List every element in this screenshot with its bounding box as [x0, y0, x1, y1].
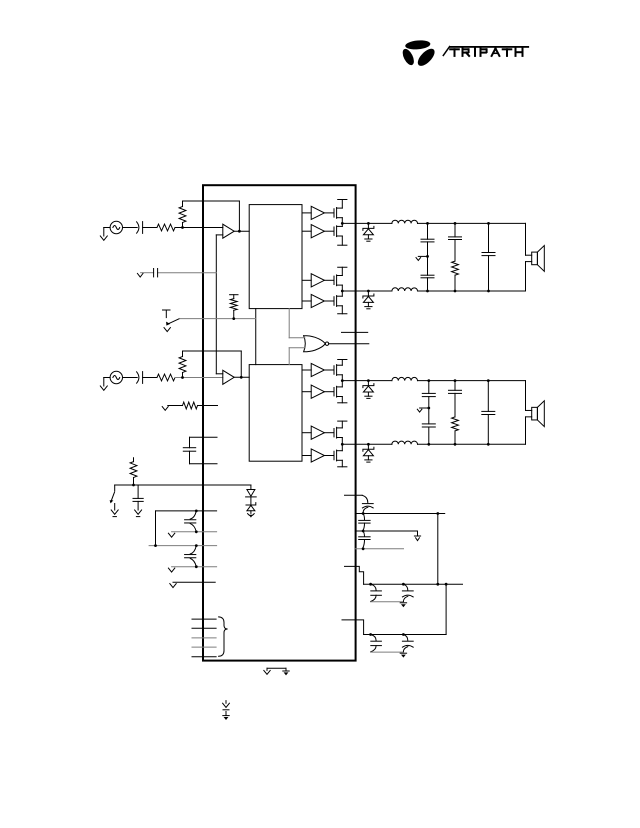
AC source V2 (ch2 input)	[110, 371, 122, 383]
node cap bottom 1	[487, 290, 490, 293]
wire pin stub VREF	[156, 510, 217, 512]
wire NOR output pin	[329, 343, 369, 345]
output inductor L2b	[392, 441, 418, 444]
capacitor C14 (polarized)	[403, 635, 407, 641]
wire output rail bottom 2	[418, 443, 526, 445]
MOSFET lower (ch1 high-side)	[324, 230, 334, 232]
wire C13 ground line	[371, 651, 404, 653]
coupling capacitor C3 (ch2)	[137, 372, 139, 383]
ground at C12	[400, 602, 406, 604]
ground at D2	[248, 514, 255, 516]
op-amp U1B (ch2 input stage)	[223, 370, 234, 384]
ground symbol pair lower (open)	[225, 701, 227, 704]
node branch1 top 1	[426, 222, 429, 225]
wire internal bus (inverting input rail)	[215, 235, 217, 374]
wire pin stub AGND3	[173, 581, 215, 583]
wire R4 to op-amp	[175, 377, 223, 379]
wire supply rail B	[364, 634, 447, 636]
capacitor C11	[371, 584, 377, 590]
AC source V1 (ch1 input)	[110, 221, 122, 233]
gate driver buffer (ch1 low-side lower)	[302, 300, 311, 302]
pull-up resistor R3 (mute)	[230, 294, 238, 296]
capacitor C8	[362, 495, 368, 502]
Tripath logo wordmark TRIPATH with overbar	[443, 46, 529, 56]
node ch1 input junction	[181, 226, 184, 229]
wire ch1 feedback	[183, 200, 240, 202]
capacitor C10	[363, 531, 364, 536]
zener diode clamp (ch1 high-side)	[367, 223, 369, 228]
wire R1 to op-amp	[175, 227, 223, 229]
ground at AGND4	[417, 531, 419, 536]
node zobel bottom 2	[454, 443, 457, 446]
node switching output (ch2 high-side)	[341, 379, 344, 382]
bias resistor R7	[133, 458, 135, 462]
wire oscillator pin 3	[192, 637, 216, 639]
op-amp/power IC U1 package outline	[203, 185, 356, 660]
wire output rail top 1	[418, 222, 526, 224]
zener diode clamp (ch2 low-side)	[367, 444, 369, 449]
node cap top 1	[487, 222, 490, 225]
ground at V2	[100, 386, 107, 390]
Zobel capacitor 1	[454, 223, 456, 237]
wire rail A down link	[445, 584, 447, 634]
node cap bottom 2	[487, 443, 490, 446]
MOSFET lower (ch2 high-side)	[324, 391, 334, 393]
node mute junction	[232, 317, 235, 320]
output inductor L2a	[392, 377, 418, 380]
wire midpoint stub 1	[418, 255, 427, 257]
gate driver buffer (ch1 high-side upper)	[302, 212, 311, 214]
wire ch2 feedback	[183, 350, 242, 352]
wire output rail bottom 1	[418, 290, 526, 292]
ground symbol (open)	[264, 670, 270, 674]
capacitor pair branch 1 upper	[427, 223, 429, 239]
node ch2 input junction	[181, 376, 184, 379]
wire pin stair B	[342, 620, 364, 635]
gate driver buffer (ch1 low-side upper)	[302, 279, 311, 281]
bias resistor R6 (ch2) with ground	[162, 407, 168, 411]
return rail bar (ch2 high-side)	[338, 402, 347, 404]
ground at C2	[137, 273, 143, 277]
wire pin stub AGND4	[355, 530, 417, 532]
return rail bar (ch2 low-side)	[338, 466, 347, 468]
gate driver buffer (ch2 low-side upper)	[302, 432, 311, 434]
feedback resistor R5 (ch2)	[182, 351, 184, 357]
wire oscillator pin 4	[192, 646, 216, 648]
node branch1 bottom 2	[427, 443, 430, 446]
capacitor pair branch 2 upper	[428, 381, 430, 394]
Zobel resistor 1	[452, 261, 459, 275]
op-amp U1A (ch1 input stage)	[223, 224, 234, 238]
wire oscillator pin 1	[192, 618, 216, 620]
diode D1	[250, 485, 252, 490]
capacitor C13	[371, 635, 377, 641]
wire pin stub AGND1	[172, 531, 217, 533]
node cap top 2	[487, 379, 490, 382]
gate driver buffer (ch2 high-side upper)	[302, 369, 311, 371]
wire switching output (ch2 low-side)	[342, 443, 392, 445]
MOSFET lower (ch1 low-side)	[324, 300, 334, 302]
node zobel top 2	[454, 379, 457, 382]
Zobel capacitor 2	[454, 381, 456, 391]
wire output rail top 2	[418, 380, 526, 382]
wire pin stub OAOUT	[345, 494, 363, 496]
ground at AGND2	[168, 568, 174, 572]
node midpoint 1	[426, 255, 429, 258]
capacitor C4 loop (ch2)	[190, 436, 218, 438]
gate driver buffer (ch2 low-side lower)	[302, 455, 311, 457]
wire V1 left lead	[104, 227, 110, 229]
wire switching output (ch1 high-side)	[342, 222, 392, 224]
NOR gate U1C	[304, 336, 326, 352]
MOSFET upper (ch1 high-side)	[324, 212, 334, 214]
ground at C5	[135, 510, 142, 514]
ground at C14	[400, 652, 406, 654]
capacitor pair branch 1 lower	[421, 274, 434, 276]
return rail bar (ch1 high-side)	[338, 244, 347, 246]
wire pin stub AGND2	[172, 566, 217, 568]
wire oscillator pin 2	[192, 627, 216, 629]
internal processing block 2 (ch2)	[249, 365, 302, 462]
wire pin stub HMUTE	[342, 331, 368, 333]
capacitor pair branch 2 lower	[422, 423, 435, 425]
wire V2 to C3	[123, 377, 138, 379]
brace grouping oscillator pins	[219, 617, 228, 656]
MOSFET lower (ch2 low-side)	[324, 455, 334, 457]
block1-to-block2 connector wire	[255, 309, 257, 365]
ground at AGND1	[168, 533, 174, 537]
input resistor R4 (ch2)	[157, 374, 175, 381]
capacitor C7	[190, 546, 196, 554]
speaker SPK2	[525, 381, 527, 411]
supply rail bar (ch2 high-side)	[338, 359, 347, 361]
wire VREF-VCC link	[155, 511, 157, 546]
node branch1 top 2	[427, 379, 430, 382]
node zobel top 1	[454, 222, 457, 225]
node switching output (ch1 low-side)	[341, 290, 344, 293]
wire V2 left lead	[104, 377, 110, 379]
wire V5A down link	[437, 514, 439, 584]
zener diode D2	[246, 503, 256, 505]
wire supply rail A	[364, 583, 463, 585]
feedback resistor R2 (ch1)	[182, 201, 184, 207]
Tripath logo icon	[400, 39, 437, 68]
ground at S1	[164, 328, 170, 332]
wire C11 ground line	[371, 601, 404, 603]
MOSFET upper (ch2 low-side)	[324, 432, 334, 434]
ground at midpoint 1	[416, 258, 421, 261]
switch S2 (sleep)	[114, 485, 116, 491]
zener diode clamp (ch1 low-side)	[367, 291, 369, 296]
node midpoint 2	[427, 407, 430, 410]
wire switching output (ch2 high-side)	[342, 380, 392, 382]
ground symbol (solid)	[283, 670, 289, 672]
wire U1B upper input	[216, 373, 223, 375]
capacitor C6	[190, 511, 196, 519]
input resistor R1 (ch1)	[157, 224, 175, 231]
wire pin stub V5A	[355, 513, 444, 515]
node switching output (ch1 high-side)	[341, 222, 344, 225]
wire switching output (ch1 low-side)	[342, 290, 392, 292]
node branch1 bottom 1	[426, 290, 429, 293]
capacitor C5 (bias)	[137, 485, 139, 498]
ground at AGND3	[170, 584, 176, 588]
wire midpoint stub 2	[420, 407, 429, 409]
node switching output (ch2 low-side)	[341, 443, 344, 446]
wire bias line	[115, 484, 251, 486]
wire C3 to R4	[143, 377, 157, 379]
mute switch S1	[163, 309, 171, 311]
supply rail bar (ch1 high-side)	[338, 199, 347, 201]
Zobel resistor 2	[452, 417, 459, 431]
wire ground link	[267, 667, 286, 669]
capacitor C12 (polarized)	[403, 584, 407, 590]
return rail bar (ch1 low-side)	[338, 313, 347, 315]
wire pin stub REF	[355, 548, 403, 550]
wire NOR bottom input	[289, 347, 305, 349]
coupling capacitor C1 (ch1)	[137, 222, 139, 233]
wire ch1 feedback cap line	[141, 272, 154, 274]
node zobel bottom 1	[454, 290, 457, 293]
gate driver buffer (ch2 high-side lower)	[302, 391, 311, 393]
wire NOR top input	[288, 309, 290, 338]
wire pin stub VCC	[149, 545, 217, 547]
gate driver buffer (ch1 high-side lower)	[302, 230, 311, 232]
wire oscillator pin 5	[192, 656, 216, 658]
wire U1A inverting input	[216, 234, 223, 236]
ground at S2	[114, 504, 116, 511]
wire pin stair A	[345, 566, 364, 584]
capacitor C2 (ch1 feedback)	[153, 269, 155, 277]
ground at midpoint 2	[417, 409, 422, 412]
filter capacitor 2	[487, 381, 489, 412]
ground at V1	[100, 236, 107, 240]
MOSFET upper (ch2 high-side)	[324, 369, 334, 371]
capacitor C9	[363, 514, 364, 520]
ground symbol pair lower (solid)	[225, 712, 227, 716]
MOSFET upper (ch1 low-side)	[324, 279, 334, 281]
supply rail bar (ch1 low-side)	[338, 266, 347, 268]
internal processing block 1 (ch1)	[249, 205, 302, 309]
wire V1 to C1	[123, 227, 138, 229]
node ch2 feedback junction	[240, 376, 243, 379]
node bias junction	[132, 484, 135, 487]
output inductor L1b	[392, 288, 418, 291]
output inductor L1a	[392, 220, 418, 223]
speaker SPK1	[525, 223, 527, 255]
node ch1 feedback junction	[238, 230, 241, 233]
supply rail bar (ch2 low-side)	[338, 420, 347, 422]
filter capacitor 1	[488, 223, 490, 252]
wire U1B output to block2	[234, 376, 249, 378]
wire mute line	[180, 318, 256, 320]
zener diode clamp (ch2 high-side)	[367, 381, 369, 386]
wire C1 to R1	[143, 227, 157, 229]
wire U1A output to block1	[234, 230, 249, 232]
